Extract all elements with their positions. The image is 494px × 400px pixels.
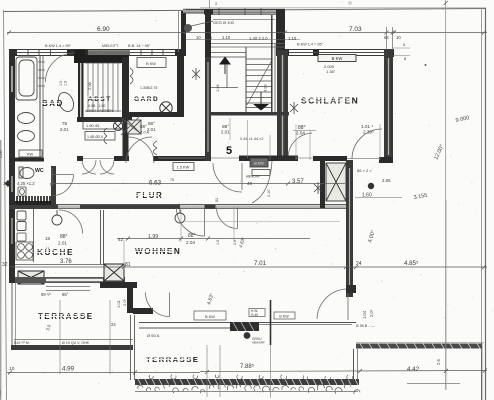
svg-text:B.KW: B.KW: [254, 162, 264, 166]
svg-text:88°: 88°: [188, 233, 196, 239]
wc toilet: [19, 167, 34, 179]
svg-text:ABWURF: ABWURF: [246, 175, 260, 179]
wohnen SW wall horiz: [100, 282, 137, 288]
schlafen east wall: [384, 49, 393, 163]
svg-text:4.89: 4.89: [263, 83, 268, 92]
flur north wall seg A1: [77, 156, 83, 161]
svg-text:1.01: 1.01: [116, 299, 121, 308]
bad east wall: [78, 55, 84, 121]
svg-text:3.57: 3.57: [292, 179, 304, 185]
kitchen terrace door sill1: [46, 286, 90, 288]
svg-text:B.KW 1.4 = 95°: B.KW 1.4 = 95°: [45, 44, 72, 48]
svg-text:88°: 88°: [60, 234, 68, 240]
bottom dimension line: [7, 372, 200, 374]
svg-text:2.0¹: 2.0¹: [369, 309, 374, 317]
flur wall door head B: [296, 157, 313, 159]
svg-text:Ø 15 QU V. OHK: Ø 15 QU V. OHK: [62, 341, 90, 345]
terrace door threshold: [259, 324, 352, 326]
abstell top dark band: [74, 50, 85, 64]
west wall diamond marker: [5, 180, 12, 187]
shaft west wall: [320, 156, 325, 208]
svg-text:95°: 95°: [62, 292, 69, 297]
kitchen dishwasher: [17, 233, 26, 241]
svg-text:18: 18: [45, 236, 50, 241]
wohnen south wall bot: [139, 327, 238, 329]
svg-text:B KW: B KW: [279, 315, 289, 319]
wohnen south wall top: [139, 322, 356, 324]
radiator rungs: [38, 62, 45, 86]
stair left flight center line: [226, 64, 228, 88]
bathtub: [16, 57, 37, 100]
kitchen south line: [15, 264, 108, 266]
bay window glazing: [186, 9, 285, 11]
svg-text:2.04: 2.04: [296, 131, 305, 136]
svg-text:2.44 ×1.44 ×2: 2.44 ×1.44 ×2: [240, 137, 263, 141]
gard double door marks: [104, 68, 133, 144]
abstell top dark band 2: [85, 55, 129, 63]
svg-text:GARD: GARD: [134, 96, 159, 103]
svg-text:1.4B Ø2.0: 1.4B Ø2.0: [87, 135, 103, 139]
bad washbasin 2: [18, 131, 35, 142]
svg-text:4.85⁵: 4.85⁵: [404, 260, 419, 267]
corridor wall x122: [123, 117, 129, 161]
flur wall door head C: [347, 158, 380, 160]
bad interior wall 2: [42, 55, 44, 157]
terrace2 corner vertical: [481, 343, 483, 400]
svg-text:2.01: 2.01: [60, 127, 69, 132]
svg-text:1.40 4 2.0: 1.40 4 2.0: [249, 36, 268, 41]
north wall pier W corner: [9, 49, 17, 56]
terrace2 door arc: [317, 289, 348, 320]
svg-text:ABWURF: ABWURF: [252, 341, 265, 345]
terrace2 bush scallops: [138, 375, 360, 394]
terrace pier hatched: [230, 322, 259, 331]
svg-text:1.10: 1.10: [288, 36, 297, 41]
terrace2 SE wall top thin: [356, 342, 484, 344]
flur dimension: [50, 183, 345, 185]
wohnen SW wall foot: [133, 308, 153, 314]
svg-text:3.76: 3.76: [60, 259, 72, 265]
flur north wall seg D: [313, 156, 347, 161]
corridor door arch 1a: [82, 160, 96, 174]
svg-text:64: 64: [384, 35, 389, 40]
north wall bottom edge: [9, 55, 186, 57]
terrace1 south wall: [11, 345, 133, 350]
svg-text:1.96: 1.96: [215, 83, 220, 92]
svg-text:2.6: 2.6: [436, 359, 441, 365]
stair down arrow: [253, 92, 269, 111]
svg-text:7.03: 7.03: [349, 26, 362, 33]
svg-text:30: 30: [3, 181, 8, 186]
svg-text:7.01: 7.01: [254, 260, 267, 267]
svg-text:2.65: 2.65: [382, 178, 391, 183]
north wall top edge: [9, 49, 186, 51]
svg-text:88°: 88°: [148, 121, 155, 126]
north wall window mullions 2: [141, 50, 163, 56]
terrace2 east wall upper2: [357, 349, 359, 380]
flur south wall top edge: [9, 204, 346, 206]
lamp circle kitchen: [52, 210, 62, 225]
abst label: [87, 96, 112, 103]
corridor cross mark: [120, 116, 141, 135]
flur door right leaf curve: [252, 161, 272, 203]
svg-text:B KW: B KW: [332, 56, 343, 61]
kitchen terrace wall band: [15, 277, 125, 283]
flur label: [135, 191, 163, 200]
asterisk mark 1: [192, 68, 200, 80]
kitchen terrace door sill2: [46, 290, 90, 292]
svg-text:B KW: B KW: [146, 62, 156, 66]
svg-text:1.30B/2.75: 1.30B/2.75: [140, 86, 157, 90]
flur north wall seg B2: [239, 156, 298, 162]
svg-text:Ø 60 A: Ø 60 A: [147, 333, 160, 338]
schlafen east wall core: [388, 58, 390, 155]
wohnen east wall: [346, 160, 353, 297]
terrace2 label TERRASSE: [145, 355, 199, 364]
svg-text:2.0¹: 2.0¹: [122, 298, 127, 306]
svg-text:2.01: 2.01: [58, 241, 67, 246]
svg-text:1.5: 1.5: [216, 240, 220, 245]
page border left: [4, 10, 7, 400]
left edge scan streak: [0, 140, 1, 400]
bay step extra line: [178, 11, 180, 52]
svg-text:B.KW 1.4 = 95°: B.KW 1.4 = 95°: [297, 43, 324, 47]
svg-text:1.0: 1.0: [59, 81, 63, 86]
svg-text:65 × 2 ×: 65 × 2 ×: [357, 168, 372, 173]
schlafen window glazing: [289, 52, 384, 54]
stair landing west wall: [205, 57, 211, 161]
circle-X symbol small: [113, 121, 122, 130]
dim ticks top: [7, 31, 11, 35]
terrace1 south upper line: [14, 339, 133, 341]
misc extension lines: [52, 118, 380, 270]
corridor door arch 2b: [100, 160, 114, 174]
terrace1 label TERRASSE: [37, 312, 94, 321]
svg-text:4.25 ×1.2: 4.25 ×1.2: [17, 181, 35, 186]
west wall slit 2: [11, 176, 13, 192]
stairwell east wall core: [282, 55, 284, 158]
terrace2 south-east wall hatched: [356, 344, 482, 349]
svg-text:B.B. 14 ÷ 95°: B.B. 14 ÷ 95°: [128, 44, 151, 48]
svg-text:B KW: B KW: [205, 315, 215, 319]
west wall slit 1: [11, 66, 13, 92]
bad KW box: [19, 150, 42, 157]
north wall grey section: [88, 50, 130, 55]
svg-text:1.60: 1.60: [362, 193, 372, 199]
schlafen north pier E: [384, 50, 394, 57]
terrace2 door jamb box: [346, 285, 356, 293]
svg-text:2.6: 2.6: [206, 35, 212, 40]
terrace1 west wall outer: [11, 283, 13, 350]
svg-text:B10 ¹/² M: B10 ¹/² M: [14, 341, 29, 345]
kitchen sink: [17, 211, 26, 231]
terrace1 door arc: [146, 293, 170, 317]
stair mid divider: [245, 47, 247, 112]
west wall slit 3: [11, 218, 13, 244]
corridor arch arc right: [126, 137, 152, 163]
svg-text:1.5 KW: 1.5 KW: [177, 166, 190, 170]
gard niche: [137, 58, 166, 68]
faint line wohnen top: [185, 221, 340, 223]
terrace1 west wall inner: [15, 283, 17, 346]
flur south wall seg mid: [80, 205, 180, 209]
svg-text:MIELE/TT: MIELE/TT: [102, 44, 119, 48]
wc door arc: [53, 175, 74, 196]
terrace2 east wall upper: [353, 349, 355, 380]
page border right inner: [481, 8, 483, 400]
kitchen SW corner X box: [18, 271, 44, 284]
bay inner sill: [211, 14, 276, 16]
svg-text:10: 10: [396, 35, 401, 40]
bay step wall west: [181, 11, 186, 55]
north wall window glazing 2: [130, 52, 175, 54]
corridor door arch 2a: [100, 160, 114, 174]
abstell shelving lines: [85, 63, 121, 112]
flur corridor door head: [83, 158, 114, 160]
bay right wall: [276, 11, 285, 55]
flur south wall bottom edge: [9, 208, 346, 210]
svg-text:6.63: 6.63: [149, 180, 162, 187]
terrace2 bottom hatched wall: [135, 379, 359, 385]
wohnen SW wall vert: [127, 284, 133, 313]
abstell east wall: [122, 57, 129, 121]
svg-text:2.10: 2.10: [267, 190, 271, 197]
wohnen label: [134, 247, 181, 256]
svg-text:4.99: 4.99: [62, 366, 75, 373]
svg-text:81: 81: [215, 198, 219, 202]
flur door head line: [211, 157, 239, 159]
gard south wall: [129, 112, 184, 117]
box B.KW below stairs: [250, 158, 268, 167]
wardrobe box 1: [83, 121, 123, 129]
svg-text:G.45: G.45: [251, 313, 258, 317]
ventilation shaft X box: [326, 163, 346, 201]
bay inner frame line: [213, 19, 275, 21]
page border right outer: [485, 8, 487, 400]
hw box: [249, 309, 265, 317]
svg-text:2.0: 2.0: [233, 240, 237, 245]
svg-text:0.: 0.: [403, 42, 406, 47]
gard east wall: [177, 55, 184, 117]
leader circle geo: [184, 21, 213, 32]
bay window mullions: [219, 8, 261, 15]
bay top wall: [183, 9, 285, 15]
flur box 1.5 KW: [173, 163, 194, 171]
svg-text:42: 42: [118, 237, 124, 242]
staircase left flight treads: [211, 53, 246, 58]
page border top second: [200, 7, 486, 9]
kitchen wall dark hatch band: [17, 196, 50, 205]
svg-text:KW: KW: [27, 153, 34, 157]
svg-text:5: 5: [226, 145, 232, 157]
north wall window mullions: [28, 50, 51, 56]
svg-text:1.04: 1.04: [362, 310, 367, 319]
svg-text:76: 76: [62, 121, 68, 126]
schlafen north wall top edge: [276, 49, 394, 51]
bay left inner wall: [205, 11, 211, 57]
svg-text:4.42: 4.42: [407, 366, 420, 373]
stairwell sill lines: [211, 44, 285, 48]
terrace2 west corner wall: [131, 315, 135, 380]
wc small sink: [18, 187, 26, 196]
wc east wall: [51, 166, 56, 207]
wohnen door arc 1: [177, 208, 205, 236]
bad interior wall: [39, 55, 41, 157]
terrace dot: [244, 332, 251, 339]
page border top: [3, 9, 486, 12]
kitchen terrace wall core: [46, 279, 103, 282]
staircase right flight treads: [247, 59, 273, 108]
secondary top dim row: [186, 39, 300, 41]
bkw terrace box: [274, 312, 295, 319]
asterisk mark 2: [290, 102, 298, 114]
wc south wall: [9, 201, 51, 205]
terrace2 bottom line2: [135, 391, 358, 393]
schlafen north pier W: [276, 49, 289, 56]
schlafen door arc E: [352, 129, 382, 159]
wohnen dim row: [117, 238, 310, 240]
bad south wall: [9, 158, 44, 162]
stair up arrow: [219, 57, 231, 75]
flur north wall seg A3: [153, 156, 207, 161]
schlafen door arc W: [288, 133, 312, 156]
column dot: [368, 183, 374, 189]
flur south wall seg between doors: [205, 205, 216, 209]
top-left corner blotch: [348, 1, 352, 5]
svg-text:2.01: 2.01: [221, 130, 230, 135]
kitchen SE X box: [104, 264, 124, 281]
schlafen north pier mid: [313, 50, 319, 56]
svg-text:Ø 95 B ∙∙ —: Ø 95 B ∙∙ —: [356, 324, 375, 328]
bad door arc: [46, 53, 75, 82]
svg-text:32: 32: [2, 262, 8, 268]
svg-text:1.60 45: 1.60 45: [86, 123, 100, 128]
flur door arc left leaf: [213, 163, 242, 192]
corridor double door marks: [154, 141, 158, 155]
west wall: [9, 50, 15, 283]
svg-text:1.10: 1.10: [222, 35, 231, 40]
svg-text:2.39⁵: 2.39⁵: [363, 130, 374, 135]
svg-text:1.9: 1.9: [64, 81, 68, 86]
svg-text:2.08: 2.08: [87, 81, 92, 90]
bad washbasin 1: [18, 113, 35, 124]
svg-text:1.4B×2.0 AUSSEN: 1.4B×2.0 AUSSEN: [86, 109, 113, 113]
asterisk mark 3: [314, 182, 322, 194]
north wall pier E: [175, 50, 186, 56]
svg-text:6.90: 6.90: [97, 26, 110, 33]
svg-text:.10: .10: [8, 366, 15, 371]
svg-text:WC: WC: [35, 168, 44, 174]
flur south wall fill: [9, 205, 346, 208]
svg-text:75: 75: [170, 178, 174, 182]
svg-text:10: 10: [196, 35, 201, 40]
corridor arch arc left: [128, 137, 154, 163]
corridor door arch 1b: [82, 160, 96, 174]
svg-text:24: 24: [111, 322, 116, 327]
schlafen label: [300, 96, 359, 106]
stair landing floor band: [205, 112, 289, 116]
dim extension verticals bottom: [60, 300, 220, 397]
gard label: [133, 96, 159, 103]
ceiling fan symbol circle-X gard: [160, 102, 172, 114]
right dim ticks and ext lines: [385, 27, 395, 50]
kitchen counter line: [33, 209, 35, 262]
north wall window glazing 1: [15, 52, 67, 54]
shaft X box small: [127, 120, 141, 134]
svg-text:GEÖ Ø 100: GEÖ Ø 100: [213, 20, 235, 25]
kitchen door arc: [59, 210, 83, 234]
flur south wall seg kitchen W: [9, 205, 58, 209]
stair diagonal cut line: [247, 60, 272, 105]
box abwurf: [252, 170, 270, 176]
bad label: [41, 99, 64, 108]
lamp circle wohnen: [175, 209, 185, 223]
north wall pier 2: [67, 50, 88, 56]
wohnen east wall core: [349, 168, 351, 288]
svg-text:69 ¹/²: 69 ¹/²: [41, 292, 51, 297]
kitchen-wohnen divider wall: [101, 210, 104, 264]
middle main dimension line y267: [10, 266, 487, 268]
abstell south wall: [77, 117, 132, 122]
top main dimension line: [7, 32, 487, 34]
flur north wall seg A2: [114, 156, 129, 161]
stair rail lines: [272, 15, 275, 112]
bad east wall core: [80, 58, 82, 118]
wardrobe box 2: [85, 132, 115, 141]
bottom small line: [407, 383, 460, 385]
svg-text:1.99: 1.99: [148, 234, 158, 240]
stair left landing line: [211, 87, 238, 89]
schlafen window board B KW: [318, 55, 356, 62]
svg-text:1.38°: 1.38°: [326, 69, 336, 74]
svg-text:7.88⁵: 7.88⁵: [240, 363, 255, 370]
kitchen stove burners: [16, 242, 33, 260]
flur north wall seg B1: [205, 156, 211, 162]
stairwell east wall: [277, 50, 288, 161]
svg-text:4.5B ∙ 1.50: 4.5B ∙ 1.50: [88, 104, 105, 108]
svg-text:1.01 ⁴: 1.01 ⁴: [361, 124, 373, 129]
wohnen door arc 2: [217, 208, 238, 229]
svg-text:ABST: ABST: [88, 96, 112, 103]
svg-text:2.01: 2.01: [147, 127, 156, 132]
kueche label: [36, 247, 74, 257]
schlafen north wall bottom edge: [284, 55, 394, 57]
svg-text:49: 49: [247, 181, 252, 186]
flur wall door head A: [158, 157, 205, 159]
schlafen SE stub: [379, 157, 393, 163]
svg-text:2.04: 2.04: [186, 240, 195, 245]
stair landing west core: [207, 62, 209, 152]
bkw wohnen box: [194, 311, 226, 320]
bad mirror oval: [56, 90, 77, 114]
